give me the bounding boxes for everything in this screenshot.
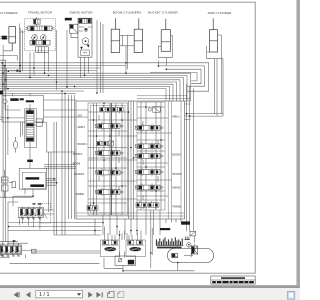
swing relief spool: [79, 19, 92, 24]
arm cylinder: [210, 18, 218, 52]
svg-text:TRAVEL: TRAVEL: [172, 205, 182, 208]
pipe corner loops NE: [126, 63, 209, 91]
left supply wires: [49, 91, 75, 235]
main control valve outer frame: [76, 96, 191, 219]
toolbar prev-page button: [26, 292, 30, 297]
left edge long wires: [0, 56, 6, 242]
mini comb: [185, 237, 190, 240]
hose connector arrow: [17, 69, 21, 72]
toolbar prev-view icon: [108, 291, 114, 297]
svg-text:ARM 1: ARM 1: [172, 116, 180, 119]
right spool row 6a: [136, 201, 147, 209]
right spool row 2: [135, 142, 163, 150]
swing check triangles: [80, 28, 89, 49]
travel motor outline: [25, 19, 56, 51]
tank pipes: [152, 228, 194, 271]
engine tick row: [156, 237, 184, 245]
main pump 2: [127, 241, 144, 252]
gang valve cell 3: [31, 207, 36, 220]
bucket cylinder piping: [158, 36, 172, 66]
title row1 text: [221, 277, 245, 279]
left spool row 5: [95, 188, 123, 196]
svg-text:BOOM 1: BOOM 1: [78, 143, 88, 146]
sheet frame border: [0, 2, 255, 273]
lower pilot valve bank: [0, 245, 22, 255]
dozer cylinder: [9, 27, 16, 51]
right scrollbar: [296, 0, 300, 285]
swing motor rotor: [82, 38, 89, 45]
svg-text:ZER CYLINDERS: ZER CYLINDERS: [0, 11, 18, 15]
right spool row 4: [135, 168, 163, 176]
tank inner symbol: [172, 253, 178, 257]
pump drain wires: [104, 250, 194, 271]
travel gearbox: [36, 47, 49, 53]
svg-text:OPTION: OPTION: [172, 173, 181, 176]
svg-text:SWING: SWING: [172, 187, 180, 190]
gang bank wires: [0, 197, 54, 245]
travel top valve: [34, 17, 41, 26]
toolbar next-view icon: [117, 291, 123, 297]
travel motor rotor R: [41, 35, 47, 41]
lower gang cell 1: [0, 244, 5, 257]
engine label: [160, 228, 170, 230]
engine caption: [157, 247, 182, 249]
arm cylinder piping: [207, 35, 223, 116]
page bottom edge band: [0, 285, 300, 288]
right spool row 3: [135, 152, 163, 160]
pilot pump block: [115, 256, 136, 266]
boom drop pipe: [126, 46, 127, 73]
svg-text:BOOM 1: BOOM 1: [172, 153, 182, 156]
taskbar blue icon: [288, 291, 295, 299]
swing small circle: [85, 29, 88, 32]
lower gang cell 3: [11, 244, 16, 257]
solenoid wires: [9, 179, 56, 206]
solenoid manifold label: [27, 160, 33, 162]
svg-text:ARM CYLINDER: ARM CYLINDER: [208, 11, 233, 15]
secondary bus lines: [0, 63, 126, 94]
toolbar last-page button: [97, 292, 103, 297]
boom cylinder L: [111, 18, 120, 52]
pilot block wires: [0, 93, 47, 168]
pilot bottom oval: [13, 137, 17, 153]
boom cylinder R: [134, 18, 142, 52]
lower gang cell 4: [16, 244, 21, 257]
main pressure bus lines: [0, 73, 191, 101]
swing motor part label: [65, 18, 72, 21]
swing motor internals: [79, 27, 92, 56]
pilot reducing valve stack: [25, 109, 36, 148]
main pump 1: [102, 241, 119, 252]
right spool row 1: [135, 124, 163, 132]
toolbar page number field: [36, 290, 83, 297]
travel counterbalance spool: [25, 26, 54, 31]
bucket cylinder: [161, 19, 170, 52]
title row2 text: [212, 281, 216, 283]
svg-text:TRAVEL MOTOR: TRAVEL MOTOR: [28, 11, 53, 15]
left spool row 4: [95, 168, 123, 176]
title block: [211, 276, 255, 284]
pilot accumulator: [3, 95, 7, 110]
swing motor pipes: [67, 20, 103, 93]
gang valve cell 2: [26, 207, 31, 220]
svg-text:SWING MOTOR: SWING MOTOR: [69, 11, 93, 15]
valve block bottom label: [181, 221, 190, 224]
right spool row 5: [135, 183, 163, 191]
travel motor pipes: [20, 28, 56, 90]
gang valve cell 1: [20, 207, 25, 220]
left spool row 3: [95, 149, 123, 157]
lower gang cell 2: [6, 244, 11, 257]
hydraulic tank: [167, 248, 213, 262]
left small valve row3: [97, 140, 108, 148]
gang valve cell 4: [38, 207, 43, 220]
solenoid bar 2: [30, 184, 44, 187]
swing motor body: [78, 18, 92, 57]
svg-text:DOZER: DOZER: [76, 193, 85, 196]
dozer cylinder pipes: [0, 24, 20, 72]
right spool row 6b: [148, 201, 159, 209]
toolbar first-page button: [14, 292, 19, 297]
solenoid bar 1: [26, 177, 40, 179]
right pilot unit: [148, 107, 160, 112]
block bottom small spool: [87, 204, 98, 212]
svg-text:BUCKET CYLINDER: BUCKET CYLINDER: [148, 11, 178, 15]
pilot block outline: [2, 95, 43, 122]
pilot text labels: [10, 98, 18, 101]
pilot side box: [36, 119, 42, 126]
lower bank wires: [0, 242, 101, 264]
svg-text:BOOM: BOOM: [73, 162, 80, 165]
swing pilot box: [70, 24, 79, 37]
left spool row 2: [95, 122, 123, 130]
pilot-to-valve wires: [43, 100, 88, 168]
center distribution wires: [9, 210, 182, 250]
pump box 1: [100, 240, 120, 257]
lower bank marks: [13, 240, 16, 241]
left edge connector: [0, 91, 3, 95]
svg-text:ARM 2: ARM 2: [78, 126, 86, 129]
lower accumulator box: [32, 249, 37, 253]
left corner turns: [2, 63, 17, 91]
return filter box: [190, 231, 196, 236]
svg-text:BOOM CYLINDERS: BOOM CYLINDERS: [113, 11, 142, 15]
travel brake spool: [30, 40, 50, 45]
boom manifold: [120, 35, 135, 46]
bottom toolbar: [0, 288, 300, 300]
row3 side box: [109, 141, 114, 146]
arm return pipes: [187, 84, 224, 231]
valve gallery lines: [88, 101, 172, 219]
check circle: [187, 243, 191, 247]
pump box 2: [126, 240, 146, 257]
left small stack: [2, 170, 16, 198]
tank top box: [191, 246, 197, 254]
remote control valve bank: [18, 208, 44, 218]
main gallery emphasis: [110, 103, 112, 215]
aux box right of bank: [40, 204, 51, 224]
pilot pump dark marks: [128, 260, 134, 265]
toolbar next-page button: [88, 292, 92, 297]
pump center wires: [105, 227, 142, 258]
valve gallery lines extra: [88, 103, 165, 215]
svg-text:1 / 1: 1 / 1: [39, 292, 50, 298]
left spool row 1b: [112, 106, 123, 114]
left spool row 1a: [100, 106, 111, 114]
travel motor rotor L: [32, 35, 38, 41]
solenoid manifold block: [19, 168, 46, 189]
gang bank marks: [33, 203, 36, 204]
svg-text:BUCKET: BUCKET: [75, 173, 85, 176]
